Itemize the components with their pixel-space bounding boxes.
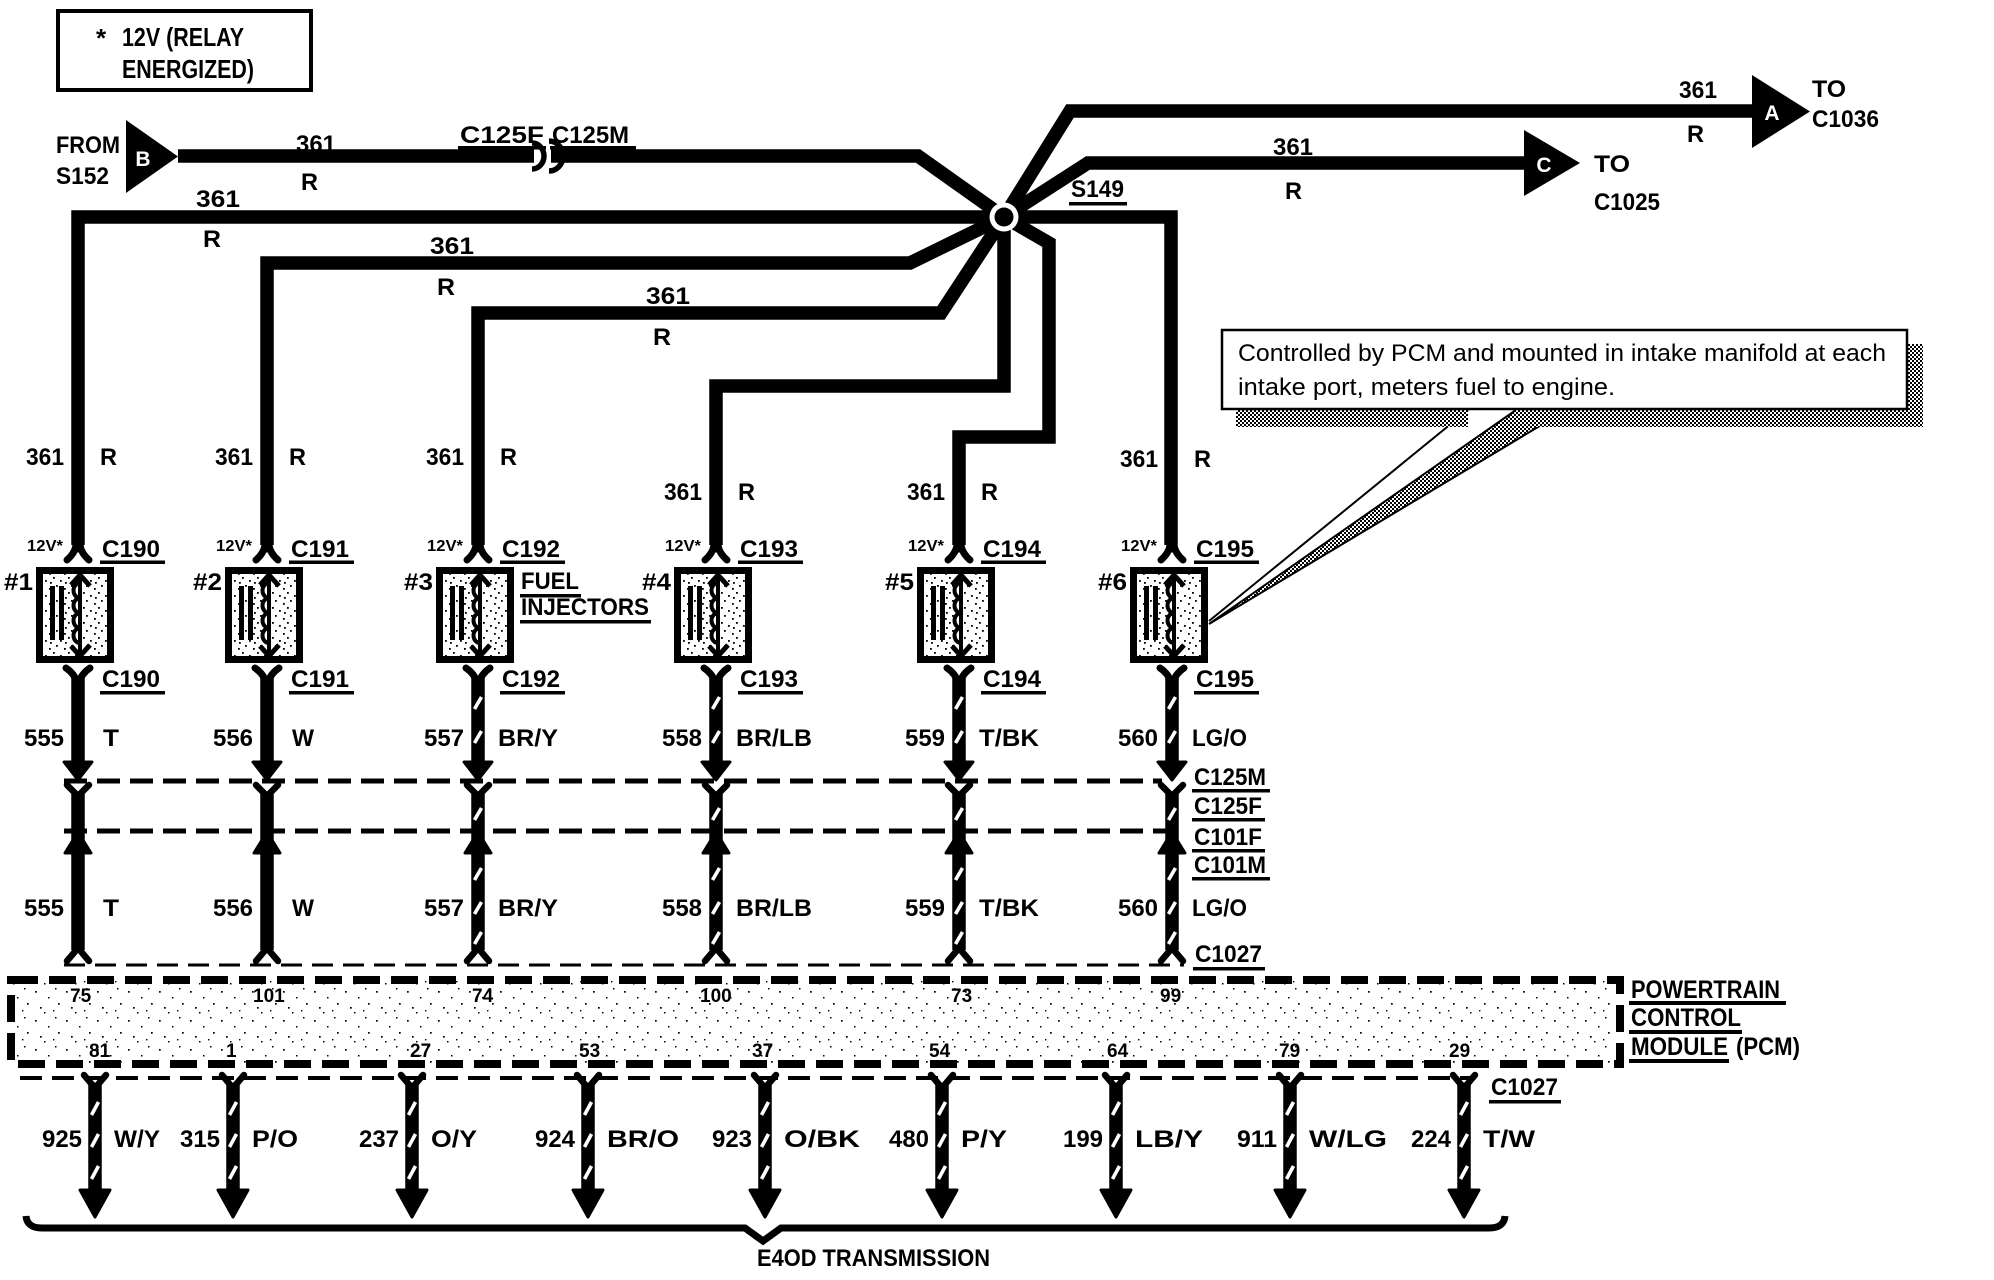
svg-text:29: 29 [1449,1041,1470,1062]
svg-text:C125M: C125M [552,122,629,149]
svg-text:P/Y: P/Y [961,1126,1007,1153]
svg-text:R: R [203,226,221,253]
svg-text:R: R [437,274,455,301]
svg-text:555: 555 [24,725,64,752]
svg-text:361: 361 [215,444,253,471]
svg-text:C190: C190 [102,666,160,693]
svg-text:T/BK: T/BK [979,895,1040,922]
svg-text:#2: #2 [193,569,222,596]
svg-text:W: W [292,895,314,922]
svg-text:BR/Y: BR/Y [498,895,558,922]
svg-text:C101M: C101M [1194,852,1266,879]
svg-text:intake port, meters fuel to en: intake port, meters fuel to engine. [1238,374,1615,401]
svg-text:558: 558 [662,895,702,922]
svg-text:361: 361 [1120,446,1158,473]
svg-text:R: R [981,479,998,506]
svg-text:C191: C191 [291,536,349,563]
svg-text:556: 556 [213,725,253,752]
svg-text:P/O: P/O [252,1126,298,1153]
svg-text:#6: #6 [1098,569,1127,596]
svg-text:81: 81 [89,1041,111,1062]
svg-text:224: 224 [1411,1126,1452,1153]
svg-text:237: 237 [359,1126,399,1153]
svg-text:559: 559 [905,895,945,922]
svg-text:T/W: T/W [1483,1126,1535,1153]
svg-text:C101F: C101F [1194,824,1262,851]
svg-text:361: 361 [1273,134,1313,161]
svg-text:T/BK: T/BK [979,725,1040,752]
svg-text:361: 361 [646,283,690,310]
svg-text:79: 79 [1279,1041,1300,1062]
svg-text:A: A [1764,102,1779,125]
svg-text:361: 361 [426,444,464,471]
svg-text:54: 54 [929,1041,951,1062]
svg-text:C125F: C125F [1194,793,1262,820]
svg-text:MODULE: MODULE [1631,1033,1728,1061]
svg-text:925: 925 [42,1126,82,1153]
svg-text:361: 361 [26,444,64,471]
svg-text:C: C [1536,154,1551,177]
svg-text:C194: C194 [983,666,1042,693]
svg-text:#4: #4 [642,569,672,596]
svg-text:R: R [500,444,517,471]
svg-text:361: 361 [664,479,702,506]
svg-text:POWERTRAIN: POWERTRAIN [1631,976,1780,1004]
svg-text:101: 101 [253,986,285,1007]
svg-text:99: 99 [1160,986,1181,1007]
svg-text:C193: C193 [740,536,798,563]
svg-text:911: 911 [1237,1126,1277,1153]
svg-text:557: 557 [424,895,464,922]
svg-text:E4OD TRANSMISSION: E4OD TRANSMISSION [757,1245,990,1272]
svg-text:W/Y: W/Y [114,1126,160,1153]
svg-text:73: 73 [951,986,972,1007]
svg-text:12V*: 12V* [27,538,64,555]
svg-text:BR/LB: BR/LB [736,895,812,922]
svg-text:LG/O: LG/O [1192,895,1247,922]
svg-text:C1036: C1036 [1812,106,1879,133]
svg-text:FUEL: FUEL [521,568,579,595]
svg-text:BR/Y: BR/Y [498,725,558,752]
svg-text:O/Y: O/Y [431,1126,477,1153]
svg-text:924: 924 [535,1126,576,1153]
svg-text:315: 315 [180,1126,220,1153]
svg-text:C1027: C1027 [1195,941,1262,968]
svg-text:FROM: FROM [56,132,120,159]
svg-text:559: 559 [905,725,945,752]
svg-text:INJECTORS: INJECTORS [521,594,649,621]
svg-text:R: R [1285,178,1302,205]
svg-text:Controlled by PCM and mounted: Controlled by PCM and mounted in intake … [1238,340,1886,367]
svg-text:LB/Y: LB/Y [1135,1126,1203,1153]
svg-text:361: 361 [430,233,474,260]
svg-text:R: R [1687,121,1704,148]
svg-text:361: 361 [907,479,945,506]
svg-text:*: * [96,23,107,53]
svg-text:C194: C194 [983,536,1042,563]
svg-text:TO: TO [1594,151,1630,178]
svg-text:ENERGIZED): ENERGIZED) [122,54,254,84]
svg-text:560: 560 [1118,895,1158,922]
svg-text:R: R [289,444,306,471]
svg-text:12V*: 12V* [908,538,945,555]
svg-text:TO: TO [1812,76,1846,103]
svg-text:199: 199 [1063,1126,1103,1153]
svg-text:37: 37 [752,1041,773,1062]
svg-text:53: 53 [579,1041,600,1062]
svg-text:C195: C195 [1196,666,1254,693]
svg-text:R: R [738,479,755,506]
svg-text:C1025: C1025 [1594,189,1660,216]
svg-text:560: 560 [1118,725,1158,752]
svg-text:12V*: 12V* [427,538,464,555]
svg-text:C192: C192 [502,536,560,563]
svg-text:64: 64 [1107,1041,1129,1062]
svg-text:361: 361 [296,131,336,158]
svg-text:R: R [653,324,671,351]
svg-text:#1: #1 [4,569,33,596]
svg-text:361: 361 [196,186,240,213]
svg-text:480: 480 [889,1126,929,1153]
svg-text:12V*: 12V* [216,538,253,555]
svg-text:T: T [103,725,119,752]
svg-text:12V (RELAY: 12V (RELAY [122,22,244,52]
svg-text:LG/O: LG/O [1192,725,1247,752]
svg-text:(PCM): (PCM) [1736,1033,1800,1061]
svg-text:BR/O: BR/O [607,1126,679,1153]
svg-text:T: T [103,895,119,922]
svg-text:557: 557 [424,725,464,752]
svg-text:12V*: 12V* [665,538,702,555]
svg-text:C1027: C1027 [1491,1074,1558,1101]
svg-text:100: 100 [700,986,732,1007]
svg-text:12V*: 12V* [1121,538,1158,555]
svg-text:361: 361 [1679,77,1717,104]
svg-text:C192: C192 [502,666,560,693]
svg-text:75: 75 [70,986,92,1007]
svg-text:C193: C193 [740,666,798,693]
svg-text:923: 923 [712,1126,752,1153]
svg-text:C191: C191 [291,666,349,693]
svg-text:558: 558 [662,725,702,752]
svg-text:W: W [292,725,314,752]
svg-text:S152: S152 [56,163,109,190]
svg-text:C190: C190 [102,536,160,563]
svg-text:C195: C195 [1196,536,1254,563]
svg-text:R: R [100,444,117,471]
svg-text:R: R [301,169,318,196]
svg-text:BR/LB: BR/LB [736,725,812,752]
svg-text:1: 1 [226,1041,237,1062]
svg-text:555: 555 [24,895,64,922]
svg-text:C125M: C125M [1194,764,1266,791]
svg-text:B: B [135,148,150,171]
svg-text:#5: #5 [885,569,914,596]
svg-text:R: R [1194,446,1211,473]
svg-text:#3: #3 [404,569,433,596]
svg-text:27: 27 [410,1041,431,1062]
svg-text:W/LG: W/LG [1309,1126,1387,1153]
svg-text:556: 556 [213,895,253,922]
svg-text:C125F: C125F [460,122,544,149]
svg-text:S149: S149 [1071,176,1124,203]
svg-text:74: 74 [472,986,494,1007]
svg-text:CONTROL: CONTROL [1631,1004,1741,1032]
svg-text:O/BK: O/BK [784,1126,861,1153]
